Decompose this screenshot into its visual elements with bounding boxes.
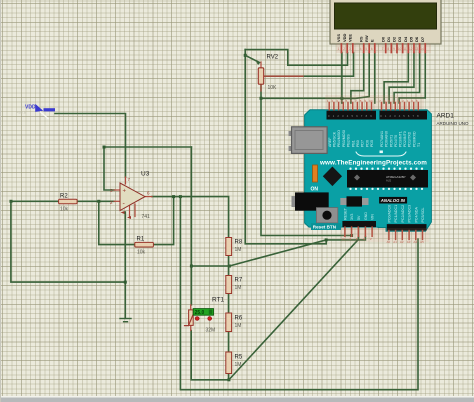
svg-text:PB1: PB1 [351,140,355,147]
svg-text:VDD: VDD [25,105,36,111]
svg-text:PD3/INT1: PD3/INT1 [399,131,403,147]
svg-text:RT1: RT1 [212,297,225,304]
Arduino bottom pin stubs analog [389,231,423,240]
node H1 end [350,234,353,237]
svg-text:D5: D5 [409,36,414,42]
svg-text:D3: D3 [397,36,402,42]
svg-text:U3: U3 [141,171,150,178]
Arduino top pin stubs [329,103,418,111]
wire LCD D4 [384,53,408,104]
Reset BTN tag [311,223,341,230]
svg-text:6: 6 [147,191,150,196]
power flag VDD [16,105,55,119]
Arduino ANALOG IN label [379,197,407,204]
svg-text:PB4/MISO: PB4/MISO [337,130,341,147]
wire LCD RW to GND node [342,53,369,99]
svg-text:PD0/RXD: PD0/RXD [412,131,416,147]
node RV2 diag [244,54,247,57]
svg-text:RV2: RV2 [267,55,279,61]
wire GND rail to LCD VSS [261,97,342,99]
wire pot bottom to GND rail and power header [261,84,352,235]
svg-text:E: E [369,39,374,42]
resistor R5 [226,352,243,374]
svg-text:ATMEGA328P: ATMEGA328P [386,175,405,179]
resistor R6 [226,313,243,332]
node wire A / R8R7 branch [190,265,193,268]
Arduino ICSP diamond [323,167,342,187]
svg-text:D7: D7 [420,36,425,42]
warm band LCD pins [336,44,431,53]
svg-text:10k: 10k [137,250,146,256]
svg-text:RW: RW [364,35,369,42]
node output R1 [172,195,175,198]
node VSS junction [340,97,343,100]
resistor R1 [135,237,154,256]
svg-text:10k: 10k [60,207,69,213]
svg-text:PC2/ADC2: PC2/ADC2 [401,205,405,223]
svg-text:PD1/TXD: PD1/TXD [408,131,412,147]
potentiometer RV2 [258,55,303,92]
wire diag to pot top [245,55,259,62]
warm band arduino top pins [325,95,424,110]
wire pot wiper to LCD VEE [264,53,354,77]
Arduino USB connector [289,127,328,154]
svg-text:D2: D2 [392,36,397,42]
svg-text:D6: D6 [414,36,419,42]
wire LCD E down [374,53,376,104]
wire feedback top loop [104,146,191,148]
svg-text:10K: 10K [268,85,278,91]
svg-text:ON: ON [311,187,319,193]
svg-text:PD5/T1: PD5/T1 [389,135,393,147]
resistor R8 [226,238,243,256]
Arduino decorative bracket [356,152,406,156]
svg-text:R2: R2 [60,194,68,200]
svg-text:D0: D0 [380,36,385,42]
wire R1 right up to output [153,197,173,245]
svg-text:GND: GND [364,212,368,220]
svg-text:R1: R1 [137,237,145,243]
svg-text:RS: RS [358,36,363,42]
svg-text:25.0: 25.0 [195,310,205,316]
wire RV2 rail down to power header [245,50,365,244]
svg-text:D1: D1 [386,36,391,42]
svg-text:ARDUINO UNO: ARDUINO UNO [437,121,470,126]
svg-text:T1: T1 [417,143,421,147]
svg-text:PC5/SCL: PC5/SCL [421,208,425,223]
Arduino bottom power header labels [344,207,375,220]
svg-text:PC0/ADC0: PC0/ADC0 [388,205,392,223]
svg-text:ARD1: ARD1 [437,113,455,120]
Arduino bottom analog header labels [388,205,426,223]
svg-text:VEE: VEE [347,34,352,42]
node output B [179,195,182,198]
svg-text:+: + [123,189,127,195]
svg-text:PD4/T0: PD4/T0 [394,135,398,147]
svg-text:PD6: PD6 [365,140,369,147]
wire op-amp output row to R8 top [152,197,229,238]
svg-text:PC4/SDA: PC4/SDA [414,207,418,223]
svg-text:PD5: PD5 [370,140,374,147]
svg-text:32M: 32M [206,328,216,334]
svg-text:1M: 1M [235,362,242,368]
Arduino DC jack [292,192,329,210]
svg-text:5V: 5V [357,215,361,220]
Arduino regulator [340,196,368,206]
svg-text:PB0: PB0 [356,140,360,147]
wire VDD to op-amp V+ [55,114,126,178]
Arduino top pin labels [328,130,421,147]
svg-text:1M: 1M [235,323,242,329]
left window border [0,0,1,402]
svg-text:PD7/AIN1: PD7/AIN1 [380,131,384,147]
wire A: loop down through RT1 to bottom rail [190,147,192,305]
Arduino board ARD1 [305,110,432,231]
Arduino reset button [316,208,337,223]
svg-text:PC1/ADC1: PC1/ADC1 [394,205,398,223]
svg-text:R8: R8 [235,240,243,246]
op-amp U3 [110,171,152,221]
node ground branch [124,281,127,284]
wire branch to chain J1 [191,265,229,267]
wire LCD RS to D10 [351,53,364,104]
wire pin2 node down to R1 [99,201,135,244]
resistor R2 [59,194,78,213]
Arduino bottom pin stubs power [345,227,372,236]
svg-text:AU2: AU2 [386,179,392,183]
svg-text:PD2/INT0: PD2/INT0 [403,131,407,147]
svg-text:www.TheEngineeringProjects.com: www.TheEngineeringProjects.com [319,159,427,166]
diagonal D1 chain J1 to header [229,240,326,266]
white pin numbers in header strips [328,114,419,118]
ground symbol [120,319,131,322]
svg-text:R6: R6 [235,316,243,322]
wire RV2 top rail to LCD VDD [245,50,347,66]
svg-text:PB3/MOSI: PB3/MOSI [342,130,346,147]
svg-text:R7: R7 [235,278,243,284]
node at top loop corner [103,146,106,149]
warm band arduino bottom pins [341,228,429,242]
wire output down to bottom rail to A4 [180,197,418,390]
svg-text:Reset BTN: Reset BTN [313,225,337,230]
svg-text:PB5/SCK: PB5/SCK [333,131,337,147]
Arduino bottom headers [342,221,376,227]
Arduino LED [313,165,318,182]
svg-text:PB2/SS: PB2/SS [347,134,351,147]
svg-text:VSS: VSS [336,34,341,42]
wire to op-amp pin 3 [104,147,114,190]
svg-text:1M: 1M [235,285,242,291]
wire chain segments [228,256,230,277]
diagonal D2 J4 to GND pin [229,237,358,380]
pin number marks top headers [327,99,418,103]
Arduino top headers [327,111,377,120]
resistor R7 [226,276,243,294]
svg-text:7: 7 [128,177,131,182]
node R2-R1 junction [97,200,100,203]
wire R2 right to op-amp pin 2 [77,200,114,202]
svg-text:VDD: VDD [342,33,347,42]
svg-text:PD6/AIN0: PD6/AIN0 [385,131,389,147]
wire R2 left to edge [11,200,59,202]
Arduino MCU chip [347,168,428,191]
svg-text:ANALOG IN: ANALOG IN [380,198,406,203]
wire op-amp ground pin down [124,212,126,318]
wire LCD D6 [394,53,420,104]
svg-text:1M: 1M [235,247,242,253]
thermistor RT1 [185,297,225,334]
node J4 R5 bottom [227,378,230,381]
node HA/D1 merge [325,238,328,241]
bottom window bar [0,396,474,402]
wire LCD D5 [389,53,414,104]
svg-text:AREF: AREF [328,137,332,147]
svg-text:D4: D4 [403,36,408,42]
svg-text:PC3/ADC3: PC3/ADC3 [408,205,412,223]
svg-text:3V3: 3V3 [350,214,354,220]
svg-text:+88.8: +88.8 [16,110,27,115]
wire LCD D7 [399,53,425,104]
LCD LCD1 [330,0,441,53]
svg-text:VIN: VIN [371,214,375,220]
svg-text:PD7: PD7 [361,140,365,147]
wire left ground loop [11,201,125,282]
svg-text:R5: R5 [235,355,243,361]
node pot bottom [260,97,263,100]
node R2 left end [10,200,13,203]
svg-text:RESET: RESET [344,207,348,220]
wire LCD VSS down [341,53,343,104]
pin number marks bottom headers [343,237,425,244]
svg-text:741: 741 [142,214,151,220]
node chain J1 [228,265,231,268]
